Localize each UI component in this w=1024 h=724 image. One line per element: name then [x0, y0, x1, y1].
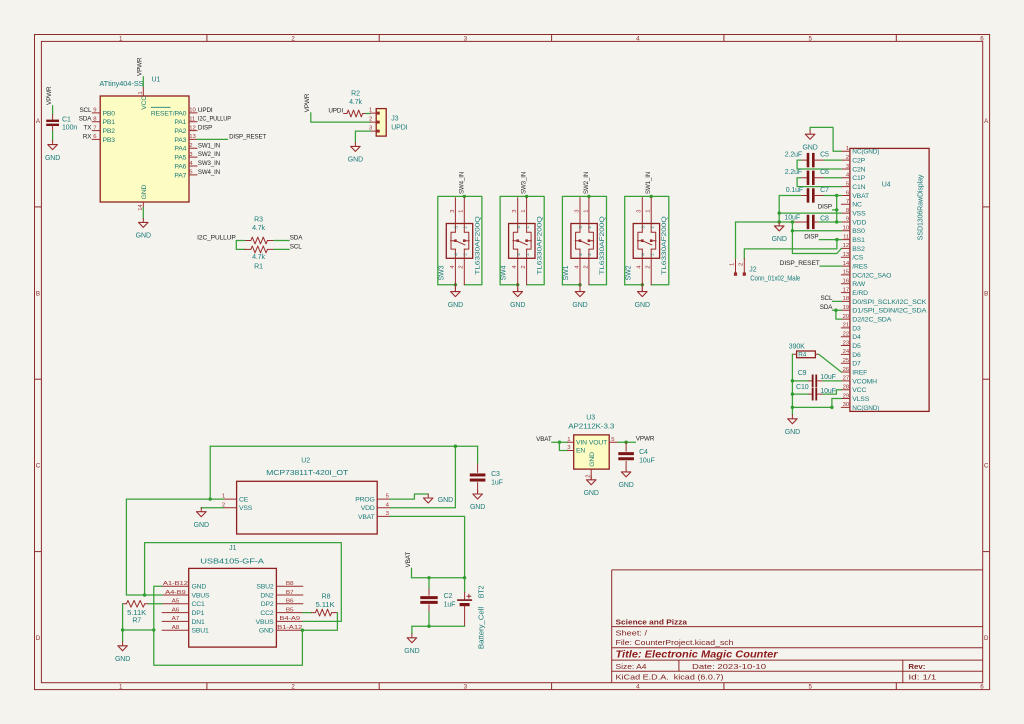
pin 10 BS0 of U4 [841, 230, 850, 232]
wire top rail VBUS [210, 445, 477, 447]
svg-text:NC(GND): NC(GND) [852, 149, 879, 156]
svg-text:GND: GND [404, 648, 419, 655]
junction BS1 [835, 238, 838, 241]
pin A1-B12 GND of J1 [162, 585, 189, 587]
pin 3 PA5 of U1 [189, 156, 197, 158]
svg-text:R3: R3 [254, 217, 263, 224]
svg-text:Size: A4: Size: A4 [616, 662, 647, 671]
svg-text:MCP73811T-420I_OT: MCP73811T-420I_OT [266, 470, 349, 477]
svg-text:CE: CE [239, 497, 249, 504]
junction at SW3 top [463, 195, 466, 198]
svg-text:10: 10 [189, 108, 196, 114]
pin 2 of J3 [370, 121, 379, 123]
svg-text:2: 2 [521, 265, 527, 268]
svg-text:22: 22 [843, 332, 849, 338]
svg-text:GND: GND [448, 302, 463, 309]
wire C9 to VCOMH [823, 380, 841, 382]
svg-text:AP2112K-3.3: AP2112K-3.3 [568, 423, 614, 430]
svg-text:2.2uF: 2.2uF [785, 169, 802, 176]
pin B8 SBU2 of J1 [276, 585, 303, 587]
svg-text:R/W: R/W [852, 281, 865, 288]
svg-text:R2: R2 [351, 91, 360, 98]
svg-text:1: 1 [587, 226, 592, 229]
svg-text:B7: B7 [286, 590, 294, 596]
ground (SW3) [454, 288, 456, 292]
svg-text:SW2_IN: SW2_IN [198, 151, 221, 158]
svg-text:1: 1 [369, 108, 372, 114]
svg-text:Science and Pizza: Science and Pizza [616, 617, 688, 626]
wire SW1 to ground [579, 285, 581, 292]
svg-text:TL6330AF200Q: TL6330AF200Q [661, 216, 668, 275]
pin 24 D6 of U4 [841, 353, 850, 355]
pin 3 VBAT of U2 [377, 515, 390, 517]
svg-text:SW4_IN: SW4_IN [458, 171, 465, 194]
svg-text:VSS: VSS [852, 211, 866, 218]
svg-text:C2: C2 [444, 593, 453, 600]
svg-text:BS1: BS1 [852, 237, 865, 244]
pin 10 RESET/PA0 of U1 [189, 112, 197, 114]
svg-text:TL6330AF200Q: TL6330AF200Q [537, 216, 544, 275]
svg-text:B1-A12: B1-A12 [277, 625, 302, 631]
pin 1 CE of U2 [224, 498, 237, 500]
svg-text:VPWR: VPWR [304, 93, 311, 112]
svg-text:GND: GND [572, 302, 587, 309]
svg-text:J2: J2 [749, 266, 756, 273]
pin A4-B9 VBUS of J1 [162, 594, 189, 596]
junction GND rail C7 [778, 220, 781, 223]
svg-text:B6: B6 [286, 599, 294, 605]
svg-text:1: 1 [846, 146, 849, 152]
wire C5 right to C2P [824, 159, 841, 161]
pin 25 D7 of U4 [841, 362, 850, 364]
svg-text:Date: 2023-10-10: Date: 2023-10-10 [692, 662, 766, 671]
svg-text:SW1_IN: SW1_IN [645, 171, 652, 194]
wire J2 pin1 to GND rail [735, 222, 737, 259]
svg-text:BS2: BS2 [852, 246, 865, 253]
svg-text:PA6: PA6 [174, 163, 186, 170]
svg-text:Conn_01x02_Male: Conn_01x02_Male [750, 276, 800, 283]
svg-text:DISP_RESET: DISP_RESET [780, 260, 820, 267]
pin 17 E/RD of U4 [841, 292, 850, 294]
wire C6 right to C1P [824, 177, 841, 179]
svg-text:9: 9 [846, 217, 849, 223]
connector J1 USB4105-GF-A body [189, 568, 277, 647]
wire to ground (J1) [122, 630, 124, 642]
svg-text:B4-A9: B4-A9 [279, 616, 300, 622]
pin A5 CC1 of J1 [162, 603, 189, 605]
svg-text:VBAT: VBAT [358, 514, 375, 521]
svg-text:R4: R4 [798, 352, 807, 359]
svg-text:GND: GND [115, 656, 130, 663]
wire VSS row [779, 212, 841, 214]
wire CE row [126, 498, 223, 500]
wire SDA to D1 and D2 [832, 309, 841, 311]
wire I2C_PULLUP to R3 [236, 240, 244, 242]
junction at SW1 top [587, 195, 590, 198]
svg-text:BT2: BT2 [479, 585, 486, 598]
svg-text:4: 4 [636, 35, 640, 42]
wire R4 left rail down [791, 354, 793, 407]
junction BS0 [791, 229, 794, 232]
svg-text:2: 2 [738, 263, 744, 266]
junction GND B1-A12 [301, 629, 304, 632]
svg-text:C: C [984, 463, 989, 470]
ground (C3) [477, 490, 479, 494]
svg-text:TL6330AF200Q: TL6330AF200Q [474, 216, 481, 275]
junction C2 bottom [427, 625, 430, 628]
svg-text:3: 3 [641, 226, 646, 229]
svg-text:GND: GND [259, 628, 274, 635]
pin 4 VDD of U2 [377, 507, 390, 509]
switch SW2 TL6330AF200Q [633, 224, 659, 259]
svg-text:4.7k: 4.7k [349, 99, 362, 106]
svg-text:UPDI: UPDI [328, 108, 343, 115]
svg-text:5: 5 [808, 683, 812, 690]
svg-text:Battery_Cell: Battery_Cell [479, 606, 486, 649]
pin 20 D2/I2C_SDA of U4 [841, 318, 850, 320]
svg-text:4: 4 [578, 253, 583, 256]
svg-text:U3: U3 [586, 414, 595, 421]
svg-text:DISP: DISP [818, 204, 832, 211]
svg-text:C1: C1 [62, 116, 71, 123]
pin 11 BS1 of U4 [841, 239, 850, 241]
svg-text:GND: GND [192, 584, 207, 591]
pin B7 DN2 of J1 [276, 594, 303, 596]
svg-text:Title: Electronic Magic Counte: Title: Electronic Magic Counter [616, 649, 779, 660]
pin 23 D5 of U4 [841, 345, 850, 347]
wire DISP_RESET to /RES [820, 265, 841, 267]
svg-text:11: 11 [843, 234, 849, 240]
svg-text:21: 21 [843, 323, 849, 329]
svg-text:VPWR: VPWR [636, 436, 655, 443]
pin 1 of J3 [370, 112, 379, 114]
pin 5 VOUT of U3 [609, 441, 618, 443]
wire C8 right to VDD pin [819, 221, 841, 223]
svg-text:13: 13 [189, 134, 196, 140]
svg-text:28: 28 [843, 385, 850, 391]
svg-text:D6: D6 [852, 352, 861, 359]
pin 8 VSS of U4 [841, 212, 850, 214]
switch SW3 TL6330AF200Q [446, 224, 472, 259]
svg-text:C2N: C2N [852, 166, 865, 173]
svg-text:GND: GND [136, 233, 151, 240]
svg-text:D7: D7 [852, 361, 861, 368]
svg-text:C1N: C1N [852, 184, 865, 191]
capacitor C4 [625, 442, 627, 451]
svg-text:C2P: C2P [852, 158, 865, 165]
svg-text:2: 2 [649, 253, 654, 256]
wire rail to C3 [477, 446, 479, 464]
pin 28 VCC of U4 [841, 389, 850, 391]
svg-text:D5: D5 [852, 343, 861, 350]
svg-text:SCL: SCL [79, 107, 92, 114]
svg-text:3: 3 [578, 226, 583, 229]
svg-text:17: 17 [843, 287, 849, 293]
wire R7 to CC1 [148, 603, 162, 605]
pin B4-A9 VBUS of J1 [276, 620, 303, 622]
pin 27 VCOMH of U4 [841, 380, 850, 382]
regulator U3 AP2112K-3.3 body [574, 435, 610, 469]
svg-text:E/RD: E/RD [852, 290, 868, 297]
junction VBUS [143, 593, 146, 596]
junction GND rail BS branch [791, 220, 794, 223]
pin 1 NC(GND) of U4 [841, 150, 850, 152]
svg-text:KiCad E.D.A. kicad (6.0.7): KiCad E.D.A. kicad (6.0.7) [616, 673, 724, 682]
display U4 SSD1306RawDisplay body [850, 148, 929, 411]
svg-text:NC(GND): NC(GND) [852, 405, 879, 412]
wire U2 VDD to top rail [390, 446, 455, 508]
svg-text:2: 2 [369, 117, 372, 123]
svg-text:13: 13 [843, 252, 850, 258]
ground (U2 VSS) [200, 508, 202, 512]
svg-text:1: 1 [119, 683, 123, 690]
svg-text:/CS: /CS [852, 255, 863, 262]
svg-text:14: 14 [843, 261, 850, 267]
junction top rail [454, 445, 457, 448]
svg-text:I2C_PULLUP: I2C_PULLUP [198, 116, 231, 123]
pin 26 IREF of U4 [841, 371, 850, 373]
pin 30 NC(GND) of U4 [841, 406, 850, 408]
svg-text:VIN: VIN [576, 439, 587, 446]
wire I2C_PULLUP branch down [236, 241, 244, 250]
junction battery top [463, 576, 466, 579]
svg-text:VBAT: VBAT [536, 436, 552, 443]
junction VBAT pin [835, 194, 838, 197]
wire rail to CE [209, 446, 211, 499]
svg-text:GND: GND [45, 155, 60, 162]
junction SDA [834, 309, 837, 312]
svg-text:PB0: PB0 [103, 110, 116, 117]
pin 12 PA2 of U1 [189, 130, 197, 132]
pin 13 PA3 of U1 [189, 138, 197, 140]
wire U2 VBAT down [390, 516, 464, 577]
svg-text:GND: GND [510, 302, 525, 309]
pin A7 DN1 of J1 [162, 620, 189, 622]
pin A6 DP1 of J1 [162, 612, 189, 614]
svg-text:10: 10 [843, 226, 850, 232]
pin 6 PB3 of U1 [92, 138, 100, 140]
wire PROG to ground [390, 494, 428, 499]
svg-text:2: 2 [583, 265, 589, 268]
pin 1 of J2 [735, 259, 737, 273]
pin 2 of J2 [743, 259, 745, 273]
svg-text:3: 3 [464, 35, 468, 42]
svg-text:1: 1 [583, 210, 589, 213]
pin 7 NC of U4 [841, 203, 850, 205]
svg-text:SBU2: SBU2 [256, 584, 274, 591]
junction C10 left [791, 392, 794, 395]
svg-text:USB4105-GF-A: USB4105-GF-A [200, 559, 264, 566]
ground (SW4) [517, 288, 519, 292]
wire VBUS left [145, 594, 163, 596]
connector J3 body [376, 109, 386, 137]
ground (J1) [122, 642, 124, 646]
svg-text:VCOMH: VCOMH [852, 378, 877, 385]
ground (SW2) [641, 288, 643, 292]
svg-text:SW1_IN: SW1_IN [198, 142, 221, 149]
svg-text:VBAT: VBAT [852, 193, 869, 200]
svg-text:DISP: DISP [198, 125, 212, 132]
ground (J3) [354, 142, 356, 146]
svg-text:1: 1 [646, 210, 652, 213]
svg-text:SDA: SDA [820, 304, 834, 311]
svg-text:4: 4 [641, 253, 646, 256]
svg-text:6: 6 [980, 683, 984, 690]
wire R4 to IREF (diagonal) [819, 354, 842, 372]
svg-text:GND: GND [141, 185, 148, 200]
wire GND rail from J2 [736, 221, 795, 223]
svg-text:Sheet: /: Sheet: / [616, 629, 648, 638]
svg-text:100n: 100n [62, 125, 77, 132]
junction C4 [624, 441, 627, 444]
svg-text:1: 1 [649, 226, 654, 229]
svg-text:7: 7 [93, 125, 96, 131]
svg-text:R7: R7 [132, 617, 141, 624]
svg-text:24: 24 [843, 349, 850, 355]
svg-text:4: 4 [516, 253, 521, 256]
svg-text:DC/I2C_SAO: DC/I2C_SAO [852, 272, 891, 279]
svg-text:1: 1 [119, 35, 123, 42]
svg-text:SDA: SDA [79, 116, 93, 123]
junction at SW2 top [650, 195, 653, 198]
wire SCL to D0 [832, 300, 841, 302]
wire SW3_IN net to switch SW4 [500, 196, 544, 284]
pin A8 SBU1 of J1 [162, 629, 189, 631]
ground (U1) [142, 218, 144, 222]
wire SW3 to ground [454, 285, 456, 292]
svg-text:SCL: SCL [820, 295, 833, 302]
svg-text:30: 30 [843, 402, 850, 408]
svg-text:D: D [984, 635, 989, 642]
svg-text:9: 9 [93, 108, 96, 114]
svg-text:C9: C9 [798, 370, 807, 377]
svg-text:VCC: VCC [852, 387, 866, 394]
pin 5 PA7 of U1 [189, 174, 197, 176]
junction VIN/EN [558, 441, 561, 444]
svg-text:SCL: SCL [290, 243, 303, 250]
wire PA3 to DISP_RESET label [197, 138, 228, 140]
svg-text:2: 2 [646, 265, 652, 268]
svg-text:1: 1 [463, 226, 468, 229]
svg-text:1: 1 [521, 210, 527, 213]
pin 5 PROG of U2 [377, 498, 390, 500]
svg-text:CC2: CC2 [260, 610, 274, 617]
svg-text:VBAT: VBAT [405, 552, 412, 568]
svg-text:2: 2 [291, 35, 295, 42]
svg-text:VBUS: VBUS [256, 619, 275, 626]
svg-text:B5: B5 [286, 607, 294, 613]
svg-text:5: 5 [808, 35, 812, 42]
svg-text:B: B [984, 290, 988, 297]
pin 3 of J3 [370, 130, 379, 132]
wire SW1_IN net to switch SW2 [625, 196, 669, 284]
svg-text:GND: GND [618, 482, 633, 489]
charger U2 MCP73811T body [237, 481, 378, 534]
svg-text:1: 1 [525, 226, 530, 229]
svg-text:C6: C6 [820, 169, 829, 176]
svg-text:C3: C3 [491, 471, 500, 478]
svg-text:2: 2 [459, 265, 465, 268]
svg-text:2: 2 [291, 683, 295, 690]
wire C5 left to C2N [797, 160, 841, 169]
svg-text:SW2_IN: SW2_IN [583, 171, 590, 194]
svg-text:2: 2 [525, 253, 530, 256]
wire C7 left down to VSS and GND rail [779, 195, 801, 221]
ground (C4) [625, 468, 627, 472]
svg-text:16: 16 [843, 279, 850, 285]
svg-text:U1: U1 [152, 76, 161, 83]
svg-text:TL6330AF200Q: TL6330AF200Q [599, 216, 606, 275]
svg-text:D4: D4 [852, 334, 861, 341]
svg-text:2: 2 [846, 155, 849, 161]
svg-text:PA1: PA1 [174, 119, 186, 126]
pin 19 D1/SPI_SDIN/I2C_SDA of U4 [841, 309, 850, 311]
junction at SW2 bottom [641, 283, 644, 286]
svg-text:C10: C10 [796, 384, 809, 391]
switch SW4 TL6330AF200Q [509, 224, 535, 259]
wire SW4 bottom left [500, 284, 518, 286]
svg-text:10uF: 10uF [820, 374, 836, 381]
svg-text:TX: TX [84, 125, 93, 132]
svg-text:SW4_IN: SW4_IN [198, 169, 221, 176]
svg-text:SDA: SDA [290, 235, 304, 242]
pin 2 GND of U3 [590, 469, 592, 480]
svg-text:2: 2 [463, 253, 468, 256]
wire R3 to SDA [274, 240, 289, 242]
svg-text:A1-B12: A1-B12 [163, 581, 188, 587]
wire SW2_IN net to switch SW1 [562, 196, 606, 284]
svg-text:PA3: PA3 [174, 137, 186, 144]
pin 7 PB2 of U1 [92, 130, 100, 132]
svg-text:SBU1: SBU1 [192, 628, 210, 635]
wire C10 to VCC [823, 390, 841, 394]
svg-text:C1P: C1P [852, 175, 865, 182]
svg-text:PA2: PA2 [174, 128, 186, 135]
svg-text:IREF: IREF [852, 369, 867, 376]
pin 3 EN of U3 [568, 450, 574, 452]
junction VSS [778, 211, 781, 214]
svg-text:I2C_PULLUP: I2C_PULLUP [197, 235, 236, 242]
svg-text:VOUT: VOUT [589, 439, 607, 446]
svg-text:NC: NC [852, 202, 862, 209]
svg-text:4: 4 [636, 683, 640, 690]
svg-text:GND: GND [785, 429, 800, 436]
svg-text:VCC: VCC [141, 96, 148, 110]
svg-text:1: 1 [459, 210, 465, 213]
junction R7 gnd [121, 628, 124, 631]
wire SW4_IN net to switch SW3 [438, 196, 482, 284]
ground (SW1) [579, 288, 581, 292]
wire VLSS jog [832, 399, 841, 408]
pin B1-A12 GND of J1 [276, 629, 303, 631]
svg-text:J3: J3 [391, 116, 398, 123]
svg-text:SW3_IN: SW3_IN [198, 160, 221, 167]
ground (U4 pin1) [809, 130, 811, 134]
svg-text:A8: A8 [172, 625, 180, 631]
svg-text:VBUS: VBUS [192, 592, 211, 599]
svg-text:Rev:: Rev: [908, 662, 925, 671]
wire SW2 to ground [641, 285, 643, 292]
svg-text:RX: RX [83, 133, 92, 140]
pin 13 /CS of U4 [841, 256, 850, 258]
svg-text:GND: GND [772, 236, 787, 243]
svg-text:R1: R1 [254, 263, 263, 270]
svg-text:29: 29 [843, 393, 849, 399]
svg-text:RESET/PA0: RESET/PA0 [151, 110, 187, 117]
svg-text:GND: GND [802, 144, 817, 151]
pin 15 DC/I2C_SAO of U4 [841, 274, 850, 276]
svg-text:2: 2 [587, 253, 592, 256]
